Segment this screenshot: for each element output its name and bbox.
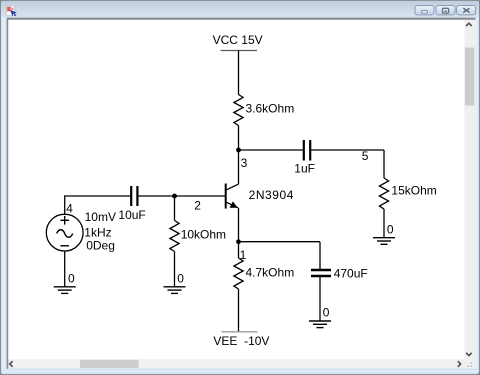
svg-text:VCC 15V: VCC 15V — [213, 33, 263, 47]
svg-text:4.7kOhm: 4.7kOhm — [246, 266, 295, 280]
svg-text:10mV: 10mV — [85, 210, 116, 224]
wire R2 to ground — [174, 252, 176, 287]
horizontal scrollbar — [8, 359, 464, 368]
resistor R2 10kOhm — [170, 221, 179, 252]
resistor R3 15kOhm — [379, 178, 388, 209]
horizontal scrollbar right arrow — [458, 361, 461, 367]
transistor Q1 2N3904 — [226, 184, 238, 209]
node 1 junction dot — [236, 239, 241, 244]
node 2 junction dot — [172, 194, 177, 199]
wire R4 to VEE bar — [238, 289, 240, 332]
wire VCC bar to R1 — [238, 51, 240, 95]
ground under C3 — [309, 321, 331, 328]
svg-text:4: 4 — [66, 202, 73, 216]
wire node 2 down to R2 — [174, 196, 176, 221]
svg-text:0: 0 — [323, 306, 330, 320]
caption buttons — [415, 6, 476, 15]
svg-text:1uF: 1uF — [294, 162, 315, 176]
svg-text:1kHz: 1kHz — [84, 225, 111, 239]
title bar — [1, 1, 479, 19]
vertical scrollbar up arrow — [466, 23, 472, 26]
resize grip — [467, 362, 472, 367]
vertical scrollbar down arrow — [466, 353, 472, 356]
wire source to C1 — [65, 195, 131, 197]
svg-text:10kOhm: 10kOhm — [181, 228, 226, 242]
horizontal scrollbar left arrow — [10, 361, 13, 367]
svg-text:15kOhm: 15kOhm — [391, 183, 436, 197]
capacitor C1 10uF plates — [130, 186, 132, 206]
vertical scrollbar thumb — [465, 48, 474, 106]
maximize button — [436, 6, 455, 15]
svg-text:0: 0 — [68, 272, 75, 286]
VCC rail bar — [221, 50, 258, 52]
svg-text:3: 3 — [241, 156, 248, 170]
ground under R2 — [164, 287, 186, 294]
wire C3 to ground — [319, 277, 321, 321]
V1 sine symbol — [57, 230, 73, 238]
vertical scrollbar — [465, 20, 476, 369]
frame highlight strips — [2, 18, 6, 369]
resistor R4 4.7kOhm — [234, 258, 243, 289]
wire corner down to C3 — [319, 242, 321, 269]
wire Q1 emitter to node 1 — [238, 208, 240, 242]
svg-text:3.6kOhm: 3.6kOhm — [246, 101, 295, 115]
capacitor C2 1uF plates — [303, 140, 305, 161]
canvas top border — [7, 18, 475, 20]
VEE rail bar — [222, 331, 258, 333]
svg-text:470uF: 470uF — [334, 267, 368, 281]
close button — [457, 6, 476, 15]
canvas left border — [7, 18, 9, 369]
minimize button — [415, 6, 434, 15]
svg-text:0Deg: 0Deg — [86, 238, 115, 252]
wire R1 to node 3 to Q1 collector — [238, 126, 240, 185]
node 3 junction dot — [236, 148, 241, 153]
V1 minus sign — [60, 245, 69, 247]
ground under R3 — [373, 238, 395, 245]
svg-text:0: 0 — [387, 223, 394, 237]
wire node 1 down to R4 — [238, 242, 240, 258]
wire node 5 down to R3 — [383, 150, 385, 178]
wire down from corner to source V1 — [64, 195, 66, 214]
ground under V1 — [54, 287, 76, 294]
capacitor C3 470uF plates — [311, 269, 331, 271]
resistor R1 3.6kOhm — [234, 95, 243, 126]
wire R3 to ground — [383, 209, 385, 238]
wire node 3 to C2 — [239, 149, 304, 151]
svg-text:VEE -10V: VEE -10V — [213, 334, 269, 348]
svg-text:2N3904: 2N3904 — [249, 188, 294, 202]
wire C2 to node 5 corner — [311, 149, 384, 151]
svg-text:2: 2 — [194, 199, 201, 213]
wire base: node 2 to Q1 — [138, 195, 226, 197]
AC source V1 circle — [46, 214, 83, 251]
horizontal scrollbar thumb — [80, 360, 139, 368]
wire V1 to ground — [64, 251, 66, 287]
wire node 1 to C3 branch corner — [239, 241, 321, 243]
V1 plus sign — [60, 216, 69, 225]
svg-text:10uF: 10uF — [118, 208, 145, 222]
svg-text:0: 0 — [177, 271, 184, 285]
svg-text:5: 5 — [362, 149, 369, 163]
app icon in title bar — [7, 6, 18, 17]
svg-text:1: 1 — [240, 248, 247, 262]
